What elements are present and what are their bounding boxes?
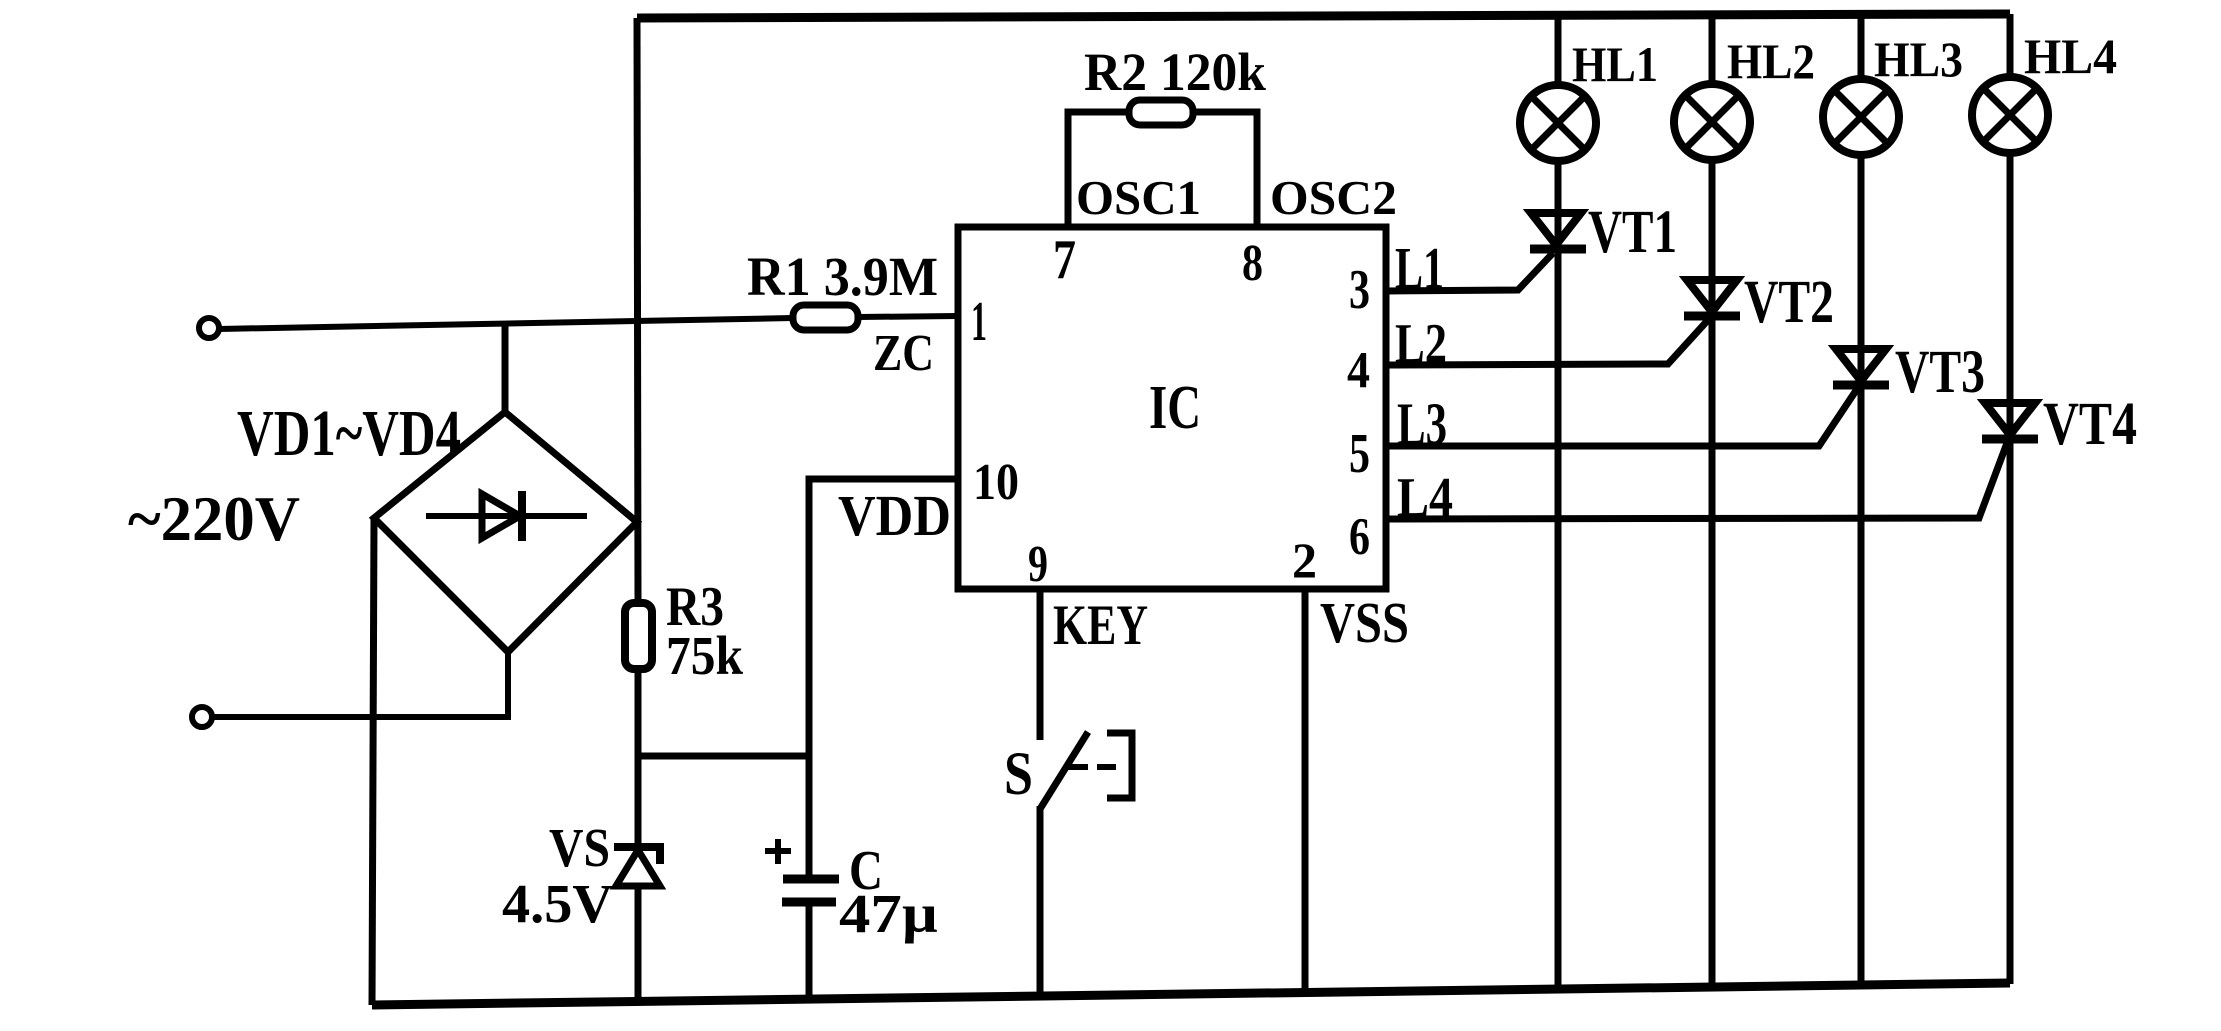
svg-text:OSC1: OSC1 [1076,170,1201,225]
svg-text:VDD: VDD [838,483,951,548]
wire L3 from pin5 to VT3 gate [1386,389,1857,446]
resistor R2 [1129,100,1193,125]
svg-text:2: 2 [1292,532,1317,588]
svg-text:4.5V: 4.5V [502,873,613,934]
wire pin10 VDD to capacitor [809,479,958,875]
switch S bracket [1107,733,1132,798]
svg-text:VT3: VT3 [1895,339,1985,406]
svg-text:OSC2: OSC2 [1270,170,1397,225]
svg-text:VD1~VD4: VD1~VD4 [237,397,461,470]
resistor R3 [625,603,652,669]
svg-text:VT4: VT4 [2043,391,2137,458]
thyristor VT4 [1982,403,2038,439]
plus sign of C [765,839,791,864]
svg-text:10: 10 [973,454,1019,511]
wire HL3 column top [1858,14,1865,80]
wire pin2 VSS to bottom bus [1302,589,1309,993]
svg-text:5: 5 [1349,423,1370,485]
svg-text:L3: L3 [1397,391,1447,457]
terminal lower [192,707,212,727]
svg-text:HL4: HL4 [2024,28,2117,84]
wire pin9 KEY stub [1037,589,1044,740]
svg-text:1: 1 [971,291,987,353]
svg-text:R2 120k: R2 120k [1084,42,1266,102]
wire bridge left vertical to bottom bus [372,518,374,1005]
svg-text:47µ: 47µ [839,883,938,944]
lamp HL3 [1823,79,1899,155]
svg-text:75k: 75k [666,625,743,686]
wire HL2 to VT2 and down to bottom bus [1709,159,1716,988]
wire L1 from pin3 to VT1 gate [1386,253,1553,291]
wire VDD branch from R3/VS node [638,753,809,760]
thyristor VT2 [1684,280,1740,316]
svg-text:4: 4 [1347,342,1370,399]
wire terminal to R1 [219,318,793,329]
wire HL1 to VT1 and down to bottom bus [1555,160,1562,990]
wire left main vertical (bridge + output to top bus) [637,18,638,603]
svg-text:9: 9 [1028,536,1048,593]
svg-text:HL2: HL2 [1727,33,1815,89]
wire pin7 OSC1 stub [1068,112,1129,227]
svg-text:VS: VS [549,817,610,878]
svg-text:R1 3.9M: R1 3.9M [747,246,938,307]
svg-text:L1: L1 [1395,235,1444,301]
IC U1 box [958,227,1386,589]
lamp HL2 [1674,84,1750,160]
wire top bus [637,14,2010,18]
svg-text:7: 7 [1053,229,1076,291]
wire bottom bus [372,983,2010,1005]
wire R3 bottom to zener [635,669,642,848]
svg-text:VT1: VT1 [1588,199,1677,266]
resistor R1 [793,305,858,330]
wire HL3 to VT3 and down to bottom bus [1858,154,1865,986]
lamp HL1 [1520,85,1596,161]
bridge rectifier VD1~VD4 [374,412,637,652]
svg-text:L4: L4 [1397,467,1453,529]
zener diode VS [614,847,660,886]
capacitor C [782,879,839,902]
wire HL2 column top [1709,15,1716,85]
wire R2 to pin8 OSC2 stub [1193,112,1257,227]
svg-text:KEY: KEY [1053,594,1148,657]
wire bridge top stub [502,323,509,412]
terminal upper [199,318,219,338]
svg-text:IC: IC [1149,374,1201,442]
wire L2 from pin4 to VT2 gate [1386,320,1708,365]
svg-text:HL1: HL1 [1572,36,1658,92]
wire L4 from pin6 to VT4 gate [1386,443,2007,519]
wire zener to bottom bus [635,886,642,1002]
thyristor VT1 [1530,213,1586,249]
diode inside bridge [426,491,587,541]
wire HL4 to VT4 and down to bottom bus [2007,152,2014,984]
svg-text:VSS: VSS [1320,590,1409,655]
svg-text:VT2: VT2 [1744,269,1834,336]
wire switch to bottom bus [1037,806,1044,997]
svg-text:3: 3 [1349,259,1370,321]
wire terminal to bridge bottom [212,652,508,717]
svg-text:HL3: HL3 [1874,31,1963,87]
wire capacitor to bottom bus [806,902,813,1000]
wire R1 to IC pin1 [858,316,958,317]
svg-text:S: S [1004,741,1033,808]
wire HL4 column top [2007,14,2014,78]
switch S dashed link [1066,764,1116,770]
svg-text:L2: L2 [1395,313,1447,375]
svg-text:~220V: ~220V [128,483,300,554]
lamp HL4 [1972,77,2048,153]
switch S arm [1040,732,1088,809]
wire HL1 column top [1555,15,1562,86]
svg-text:6: 6 [1349,508,1370,566]
thyristor VT3 [1833,349,1889,385]
svg-text:8: 8 [1242,235,1263,292]
svg-text:ZC: ZC [873,325,934,382]
